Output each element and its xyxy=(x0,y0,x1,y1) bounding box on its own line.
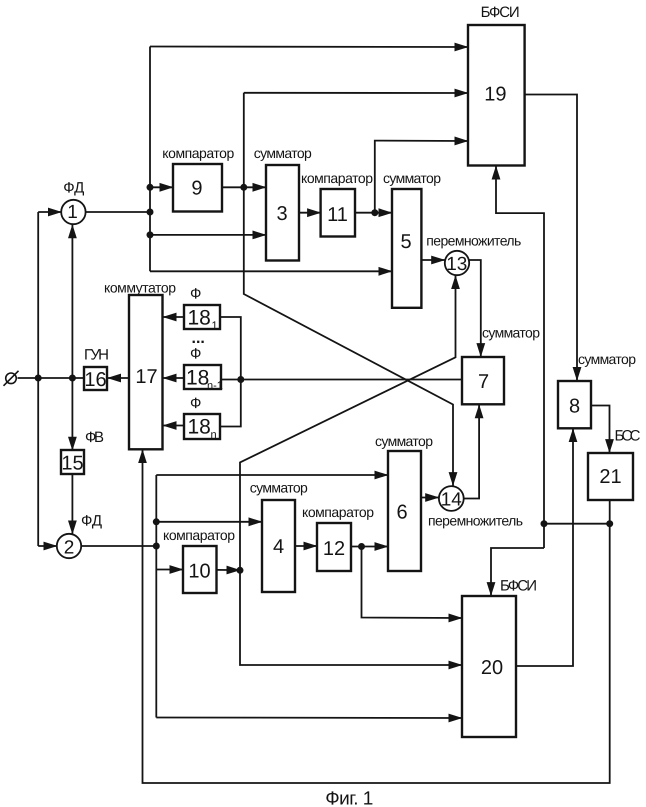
wire: box20 output up into box8 bottom xyxy=(516,429,573,666)
svg-text:19: 19 xyxy=(484,84,506,106)
svg-text:Ф: Ф xyxy=(190,286,201,303)
svg-text:сумматор: сумматор xyxy=(254,145,312,161)
wire: box10 junction riser diagonal up into multiplier 13 xyxy=(240,276,456,571)
wire: y717 to box20 lower input xyxy=(156,717,462,720)
svg-text:компаратор: компаратор xyxy=(162,145,234,161)
wire: y522 to summator 4 xyxy=(156,521,262,523)
svg-text:n-1: n-1 xyxy=(207,380,223,392)
wire: node1 output to x150 bus xyxy=(86,211,150,213)
box 9 comparator xyxy=(173,164,222,212)
wire: box5 to multiplier 13 xyxy=(421,259,444,261)
wire: box19 output down to summator 8 top xyxy=(525,95,577,381)
box 17 commutator xyxy=(129,295,163,449)
svg-text:ФД: ФД xyxy=(63,180,84,197)
wire: x156 vertical bus xyxy=(155,475,157,718)
wire: bus bottom corner to summator 5 lower input xyxy=(150,270,392,272)
svg-text:перемножитель: перемножитель xyxy=(426,233,521,249)
svg-text:17: 17 xyxy=(135,366,157,388)
box 16 GUN xyxy=(84,367,107,391)
wire: into node1 left xyxy=(38,211,61,213)
node 2 phase detector xyxy=(57,534,81,559)
wire: corner feed down into box20 top xyxy=(491,548,544,596)
svg-text:компаратор: компаратор xyxy=(302,504,374,520)
wire: box12 junction down to box20 top input xyxy=(362,547,463,619)
wire: box12 to summator 6 xyxy=(351,546,388,548)
wire: box21 bottom loop to box17 bottom xyxy=(143,450,610,783)
svg-text:Ф: Ф xyxy=(190,346,201,363)
box 3 summator xyxy=(266,165,299,261)
svg-text:ФД: ФД xyxy=(81,513,102,530)
svg-text:5: 5 xyxy=(400,231,411,253)
svg-text:1: 1 xyxy=(67,202,78,223)
svg-text:18: 18 xyxy=(188,307,211,330)
box 5 summator xyxy=(392,189,421,308)
svg-text:БСС: БСС xyxy=(615,428,641,445)
node 14 multiplier xyxy=(439,486,464,511)
box 15 FV xyxy=(61,450,84,475)
node A junction dots xyxy=(35,184,614,574)
box 6 summator xyxy=(388,451,421,571)
wire: x38 branch vertical xyxy=(37,212,39,546)
svg-text:ГУН: ГУН xyxy=(84,347,109,364)
box 4 summator xyxy=(262,500,295,592)
wire: box9 output to box3 input xyxy=(222,186,266,188)
box 8 summator xyxy=(558,381,591,428)
wire: box6 to multiplier 14 xyxy=(421,497,439,499)
box 18-n phase shifter xyxy=(184,414,220,441)
svg-text:8: 8 xyxy=(569,396,580,418)
wire: box17 to GUN 16 xyxy=(108,377,130,379)
wire: x150 vertical bus xyxy=(149,47,151,272)
wire: box10 output to junction xyxy=(217,569,241,571)
svg-text:11: 11 xyxy=(327,204,348,226)
svg-text:15: 15 xyxy=(61,453,83,475)
box 21 BSS xyxy=(588,453,633,500)
svg-text:сумматор: сумматор xyxy=(375,433,433,449)
wire: box9 riser and diagonal down to multiplier 14 xyxy=(244,93,453,486)
svg-text:9: 9 xyxy=(191,178,202,200)
wire: y93 line to box19 input2 xyxy=(244,92,468,94)
node 1 phase detector xyxy=(61,200,85,224)
svg-text:компаратор: компаратор xyxy=(301,170,373,186)
svg-text:18: 18 xyxy=(186,367,209,390)
wire: node21 bus up into box19 bottom xyxy=(496,166,544,548)
svg-text:компаратор: компаратор xyxy=(163,527,235,543)
svg-text:18: 18 xyxy=(188,416,211,439)
box 19 BFSI xyxy=(468,25,525,166)
wire: into node2 left xyxy=(38,545,57,547)
box 7 summator xyxy=(462,357,504,404)
svg-text:БФСИ: БФСИ xyxy=(481,4,520,21)
port phi input terminal xyxy=(4,371,19,386)
svg-text:БФСИ: БФСИ xyxy=(500,578,537,595)
svg-text:...: ... xyxy=(192,330,205,347)
wire: node2 output xyxy=(81,545,156,547)
svg-text:12: 12 xyxy=(323,538,345,560)
svg-text:сумматор: сумматор xyxy=(482,325,540,341)
svg-text:10: 10 xyxy=(188,561,210,583)
svg-text:коммутатор: коммутатор xyxy=(104,280,176,296)
wire: phase shifter chain vertical xyxy=(220,317,241,427)
box 11 comparator xyxy=(321,189,355,237)
svg-text:7: 7 xyxy=(478,371,489,393)
svg-text:6: 6 xyxy=(396,502,407,524)
svg-text:перемножитель: перемножитель xyxy=(428,513,523,529)
box 20 BFSI xyxy=(462,596,516,737)
svg-text:сумматор: сумматор xyxy=(250,480,308,496)
svg-text:Ф: Ф xyxy=(190,395,201,412)
wire: 18-1 to box17 xyxy=(163,316,184,318)
svg-text:13: 13 xyxy=(446,254,467,275)
svg-text:21: 21 xyxy=(599,466,621,488)
wire: junction down to box20 middle input xyxy=(240,570,462,665)
svg-text:ФВ: ФВ xyxy=(85,429,104,446)
svg-text:сумматор: сумматор xyxy=(383,170,441,186)
svg-text:1: 1 xyxy=(212,320,218,332)
wire: 18-n-1 to box17 xyxy=(163,377,184,379)
wire: box4 to comparator 12 xyxy=(295,545,317,547)
svg-text:14: 14 xyxy=(441,490,463,511)
wire: bus to comparator 9 xyxy=(150,186,173,188)
box 18-n-1 phase shifter xyxy=(184,365,223,392)
svg-text:Фиг. 1: Фиг. 1 xyxy=(325,788,373,807)
svg-text:сумматор: сумматор xyxy=(578,351,636,367)
wire: x72 up into node1 bottom xyxy=(71,225,73,378)
box 10 comparator xyxy=(183,546,217,593)
wire: box3 to comparator 11 xyxy=(299,212,321,214)
wire: FV 15 down into node2 top xyxy=(71,474,73,534)
wire: box11 output riser xyxy=(375,141,468,213)
wire: y569 to comparator 10 xyxy=(156,569,183,571)
wire: circle13 output down to summator 7 xyxy=(469,260,481,357)
wire: 18-n to box17 xyxy=(163,425,184,427)
svg-text:2: 2 xyxy=(64,538,75,559)
svg-text:n: n xyxy=(211,429,217,441)
wire: y524 link xyxy=(544,523,610,525)
wire: y475 to summator 6 upper input xyxy=(156,474,388,476)
svg-text:4: 4 xyxy=(273,536,284,558)
svg-text:20: 20 xyxy=(481,657,503,679)
box 18-1 phase shifter xyxy=(184,305,220,332)
wire: box8 to box21 xyxy=(591,406,610,453)
wire: box7 output to phase shifters xyxy=(221,379,462,381)
wire: bus to summator 3 lower input xyxy=(150,234,266,236)
wire: top line to box19 input1 xyxy=(150,46,468,49)
wire: box11 to summator 5 xyxy=(355,212,392,214)
wire: x72 down into FV 15 xyxy=(71,378,73,450)
wire: multiplier 14 up into box7 bottom xyxy=(464,405,479,499)
svg-text:3: 3 xyxy=(276,203,287,225)
node 13 multiplier xyxy=(445,251,469,275)
box 12 comparator xyxy=(317,523,351,571)
svg-text:16: 16 xyxy=(84,369,106,391)
wire: GUN output line to port xyxy=(18,377,85,379)
